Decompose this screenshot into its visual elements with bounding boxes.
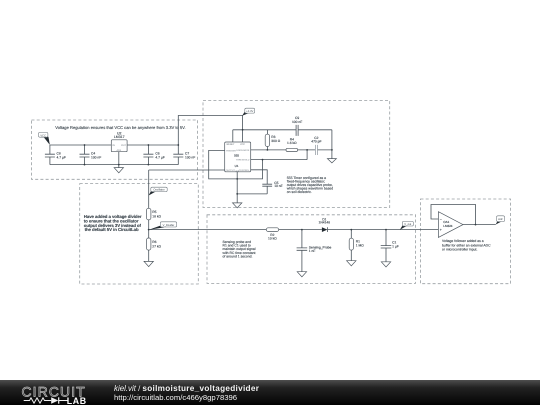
wire: divider node to R2 — [149, 229, 267, 231]
node: divider junction — [148, 229, 150, 231]
svg-text:R6: R6 — [152, 240, 156, 244]
Adc flag — [496, 216, 505, 225]
wire: op-amp output — [463, 224, 496, 226]
svg-text:100 nF: 100 nF — [292, 120, 302, 124]
wire: trigger loop — [209, 150, 263, 179]
ground (divider) — [144, 250, 153, 267]
VCC flag — [39, 132, 50, 145]
svg-text:V_Divider: V_Divider — [163, 224, 175, 227]
capacitor C9 — [292, 116, 302, 136]
ground (555) — [233, 203, 242, 208]
wire: threshold connection — [251, 150, 307, 160]
annotation box: buffer section — [421, 199, 511, 284]
svg-text:or microcontroller input.: or microcontroller input. — [442, 248, 477, 252]
note: voltage follower buffer — [442, 239, 491, 251]
svg-text:100 nF: 100 nF — [91, 156, 101, 160]
wire: VCC rail to LM317 IN — [50, 144, 111, 146]
note: voltage divider — [84, 214, 142, 232]
footer bar — [0, 380, 540, 405]
svg-text:RESET: RESET — [227, 143, 236, 146]
resistor R1 — [349, 230, 364, 261]
svg-text:1 µF: 1 µF — [392, 245, 399, 249]
svg-text:27 kΩ: 27 kΩ — [152, 244, 161, 248]
annotation box: voltage regulation section — [32, 120, 198, 179]
svg-text:OUT: OUT — [121, 144, 127, 147]
ground (C1) — [381, 262, 390, 267]
node: output junction — [475, 224, 477, 226]
capacitor C8 — [45, 145, 66, 165]
svg-text:470 pF: 470 pF — [311, 139, 321, 143]
capacitor C7 — [173, 145, 195, 165]
V_Divider flag — [149, 222, 177, 230]
op-amp OA1 LM324 — [438, 212, 463, 238]
wire: regulation bottom rail — [50, 164, 178, 166]
svg-text:LM324: LM324 — [443, 224, 453, 228]
svg-text:of around 1 second.: of around 1 second. — [223, 255, 253, 259]
svg-text:18 kΩ: 18 kΩ — [152, 215, 161, 219]
capacitor C5 — [262, 181, 282, 188]
wire: RESET stub — [232, 130, 234, 142]
svg-text:TRIGGER: TRIGGER — [226, 149, 236, 152]
svg-text:LAB: LAB — [67, 396, 87, 406]
wire: LM317 OUT rail — [127, 144, 178, 146]
wire: R2 to D1 — [279, 229, 322, 231]
node: junctions output net — [301, 229, 387, 231]
svg-text:on soil dielectric.: on soil dielectric. — [287, 190, 312, 194]
svg-text:1 MΩ: 1 MΩ — [356, 244, 364, 248]
capacitor Sensing_Probe — [297, 230, 332, 272]
svg-text:Adc: Adc — [498, 218, 503, 221]
svg-text:V_out: V_out — [404, 223, 411, 226]
wire: oscillator VCC rail — [233, 130, 332, 150]
svg-text:CONTROL: CONTROL — [239, 169, 250, 172]
svg-text:the default 5V in CircuitLab: the default 5V in CircuitLab — [85, 227, 139, 232]
wire: D1 to buffer input — [328, 229, 439, 231]
wire: divider top — [148, 170, 150, 208]
annotation box: sensing probe / output section — [207, 215, 416, 284]
svg-text:−: − — [440, 218, 442, 222]
ground (C2/C9 node) — [327, 150, 336, 163]
capacitor C4 — [80, 145, 102, 165]
CircuitLab logo — [0, 380, 100, 406]
wire: ADJ to bottom rail — [118, 152, 120, 165]
resistor R4 — [286, 138, 298, 152]
note: sensing probe RC — [223, 240, 256, 259]
diode D1 1N4148 — [319, 217, 331, 232]
node: junction dots regulation — [84, 144, 180, 165]
annotation box: oscillator section — [203, 101, 390, 208]
svg-text:1N4148: 1N4148 — [319, 221, 331, 225]
svg-text:1 nF: 1 nF — [309, 249, 316, 253]
wire: 555 output to divider — [149, 169, 225, 171]
wire: control to C5 — [237, 170, 267, 194]
resistor R2 — [266, 228, 278, 241]
ground (regulation) — [114, 165, 123, 173]
svg-text:Oscillator: Oscillator — [153, 189, 164, 192]
ground (R1) — [347, 261, 356, 266]
resistor R5 — [147, 208, 162, 220]
svg-text:LM317: LM317 — [114, 135, 125, 139]
svg-text:4.7 µF: 4.7 µF — [155, 156, 164, 160]
regulator U2 LM317 — [111, 131, 127, 152]
capacitor C1 — [381, 230, 399, 262]
svg-text:DISCHARGE: DISCHARGE — [236, 149, 250, 152]
V_out flag — [400, 221, 414, 229]
svg-text:VCC: VCC — [240, 143, 245, 146]
svg-text:100 nF: 100 nF — [185, 156, 195, 160]
note: 555 oscillator — [287, 176, 333, 194]
ground (probe) — [297, 272, 306, 277]
annotation box: voltage divider section — [80, 184, 199, 284]
Oscillator flag — [149, 187, 168, 195]
timer U1 555 — [225, 142, 251, 172]
wire: R5 to divider node — [148, 220, 150, 230]
wire: regulator output up and over to +3.3V — [178, 116, 242, 146]
svg-text:555: 555 — [234, 154, 239, 158]
capacitor C2 — [311, 136, 321, 155]
svg-text:THRESHOLD: THRESHOLD — [236, 159, 250, 162]
svg-text:IN: IN — [112, 144, 115, 147]
wire: feedback loop — [431, 205, 476, 225]
svg-text:1.6 kΩ: 1.6 kΩ — [287, 141, 297, 145]
svg-text:10 nF: 10 nF — [274, 184, 282, 188]
svg-text:300 Ω: 300 Ω — [271, 139, 280, 143]
svg-text:OUTPUT: OUTPUT — [226, 169, 236, 172]
resistor R6 — [147, 230, 162, 251]
resistor R3 — [265, 130, 281, 150]
wire: 555 GND pin down — [236, 172, 238, 203]
node: junction dots oscillator — [236, 129, 332, 195]
+3.3V flag — [242, 108, 255, 116]
svg-text:4.7 µF: 4.7 µF — [57, 156, 66, 160]
svg-text:+3.3V: +3.3V — [246, 110, 253, 113]
svg-text:+: + — [440, 228, 442, 232]
wire: VCC stub — [242, 130, 244, 142]
logo resistor-diode art — [24, 397, 68, 402]
svg-text:10 kΩ: 10 kΩ — [268, 236, 277, 240]
footer text — [114, 385, 259, 402]
svg-text:U1: U1 — [235, 164, 239, 168]
svg-text:VCC: VCC — [40, 134, 46, 137]
capacitor C6 — [143, 145, 164, 165]
wire: discharge rail — [251, 149, 332, 151]
svg-text:Voltage Regulation ensures tha: Voltage Regulation ensures that VCC can … — [55, 125, 185, 130]
